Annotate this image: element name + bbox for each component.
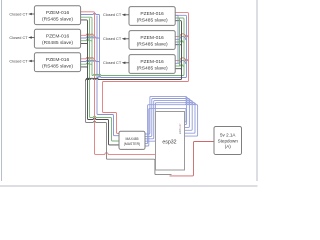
wire R1 green corner into daisy xyxy=(175,18,179,19)
svg-text:(RS485 slave): (RS485 slave) xyxy=(137,41,168,47)
svg-text:(RS485 slave): (RS485 slave) xyxy=(137,17,168,23)
svg-text:Closed CT: Closed CT xyxy=(9,59,28,63)
right column RS485-A daisy vertical xyxy=(179,19,181,66)
wire R2 GND black to right bus xyxy=(175,45,181,46)
wire R2 RS485-B blue to right bus xyxy=(175,36,186,40)
wire L2 GND black to middle bus xyxy=(81,43,88,44)
PZEM-016 R2 (RS485 slave) xyxy=(129,31,175,50)
svg-text:Closed CT: Closed CT xyxy=(103,61,122,65)
page frame bottom border xyxy=(0,185,258,187)
wire R2 5V red to right bus xyxy=(175,34,188,38)
wire R1 5V red to right bus xyxy=(175,13,188,14)
svg-text:esp32: esp32 xyxy=(162,140,176,146)
svg-text:PZEM-016: PZEM-016 xyxy=(140,35,164,41)
5v 2.1A stepdown module xyxy=(214,127,242,155)
PZEM-016 R1 (RS485 slave) xyxy=(129,7,175,26)
svg-text:PZEM-016: PZEM-016 xyxy=(140,59,164,65)
staircase wire 5 MAX485 to esp32 xyxy=(145,104,198,144)
svg-text:Stepdown: Stepdown xyxy=(218,138,239,143)
wire L2 RS485-B blue to middle bus xyxy=(81,37,100,39)
middle bus RS485-A green vertical to MAX485 xyxy=(90,18,120,141)
wire R1 RS485-B blue to right bus xyxy=(175,14,186,17)
svg-text:PZEM-016: PZEM-016 xyxy=(46,57,70,63)
wire R3 RS485-A green to right bus xyxy=(175,65,184,67)
MAX485 master U1 xyxy=(119,131,145,149)
svg-text:Closed CT: Closed CT xyxy=(103,37,122,41)
svg-text:PZEM-016: PZEM-016 xyxy=(140,11,164,17)
svg-text:(RS485 slave): (RS485 slave) xyxy=(137,65,168,71)
PZEM-016 R3 (RS485 slave) xyxy=(129,55,175,74)
wire L3 5V red to middle bus xyxy=(81,57,95,60)
wire L1 GND black to middle bus xyxy=(81,20,88,21)
middle bus 5V red vertical long run to esp32 left pin xyxy=(95,13,156,155)
middle bus red second vertical to MAX485 VCC xyxy=(103,83,120,134)
staircase wire 3 MAX485 to esp32 xyxy=(145,100,192,139)
wire L2 5V red to middle bus xyxy=(81,34,95,37)
wire L2 RS485-A green to middle bus xyxy=(81,39,92,41)
page frame right border xyxy=(256,0,258,181)
svg-text:Closed CT: Closed CT xyxy=(103,13,122,17)
middle bus blue second vertical xyxy=(99,16,101,78)
esp32 module U2 xyxy=(156,112,185,171)
staircase wire 6 MAX485 to esp32 xyxy=(145,108,186,146)
svg-text:(RS485 slave): (RS485 slave) xyxy=(42,40,73,46)
svg-text:PZEM-016: PZEM-016 xyxy=(46,10,70,16)
wire R1 RS485-A green to right bus xyxy=(175,18,184,19)
page frame left border xyxy=(1,0,3,181)
red 5V supply stepdown to esp32 xyxy=(170,142,215,176)
wire L1 RS485-B blue to middle bus xyxy=(81,13,100,15)
svg-text:MAX485: MAX485 xyxy=(125,137,138,141)
svg-text:Closed CT: Closed CT xyxy=(9,12,28,16)
wire R1 GND black to right bus xyxy=(175,21,181,22)
middle bus green second vertical xyxy=(91,18,93,75)
PZEM-016 L3 (RS485 slave) xyxy=(34,53,80,72)
middle bus RS485-B blue vertical to MAX485 xyxy=(97,16,119,136)
right bus green vertical + cross line to middle bus xyxy=(92,19,184,76)
svg-text:5v 2.1A: 5v 2.1A xyxy=(220,132,236,137)
svg-text:(A): (A) xyxy=(225,144,232,149)
wire R3 RS485-B blue to right bus xyxy=(175,60,186,64)
svg-text:Closed CT: Closed CT xyxy=(9,36,28,40)
svg-text:PZEM-016: PZEM-016 xyxy=(46,34,70,40)
grey GND run under esp32 xyxy=(86,81,172,175)
PZEM-016 L2 (RS485 slave) xyxy=(34,29,80,48)
wire L3 RS485-A green to middle bus xyxy=(81,63,92,65)
right bus black vertical + cross line to middle bus xyxy=(86,22,182,81)
PZEM-016 L1 (RS485 slave) xyxy=(34,6,80,25)
wire R1 blue corner into daisy xyxy=(175,14,178,17)
wire L3 RS485-B blue to middle bus xyxy=(81,60,100,62)
staircase wire 1 MAX485 to esp32 xyxy=(145,96,187,134)
wire R2 RS485-A green to right bus xyxy=(175,41,184,43)
svg-text:(RS485 slave): (RS485 slave) xyxy=(42,17,73,23)
right bus red vertical + cross line to middle bus xyxy=(103,14,189,83)
svg-text:(RS485 slave): (RS485 slave) xyxy=(42,64,73,70)
wire L1 RS485-A green to middle bus xyxy=(81,17,92,18)
staircase wire 2 MAX485 to esp32 xyxy=(145,98,189,137)
right bus blue vertical + cross line to middle bus xyxy=(97,16,187,77)
right column RS485-B daisy vertical xyxy=(177,16,179,63)
wire R3 GND black to right bus xyxy=(175,69,181,70)
middle bus GND black vertical to MAX485 xyxy=(88,21,120,145)
svg-text:(MASTER): (MASTER) xyxy=(124,142,140,146)
wire L1 5V red to middle bus xyxy=(81,12,95,14)
svg-text:io16 io17: io16 io17 xyxy=(178,123,182,134)
wire L3 GND black to middle bus xyxy=(81,67,88,68)
wire R3 5V red to right bus xyxy=(175,58,188,62)
staircase wire 4 MAX485 to esp32 xyxy=(145,102,195,142)
